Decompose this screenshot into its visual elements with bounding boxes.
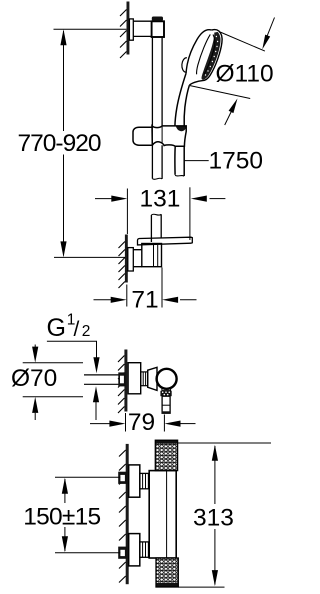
wall (bracket view) (119, 235, 128, 289)
dimension line segments (64, 479, 66, 551)
head apex cap (212, 30, 219, 31)
left arrow (90, 423, 110, 425)
svg-text:71: 71 (131, 287, 158, 314)
wall bracket flange (top) (129, 19, 133, 40)
bottom extension line (179, 586, 225, 588)
left arrow (outside, pointing right) (95, 198, 112, 200)
left extension line (126, 189, 128, 235)
valve body cone (148, 367, 157, 390)
supply pipe behind wall (84, 375, 124, 384)
bracket flange (128, 248, 134, 271)
bottom supply nut behind wall (118, 547, 127, 559)
svg-text:G: G (47, 314, 66, 342)
top knob (knurled) (155, 440, 177, 470)
rail edges through holder (152, 126, 162, 145)
valve neck / union (141, 372, 148, 386)
wall bracket arm (top) (133, 21, 151, 36)
extension line top (54, 28, 127, 30)
upper arrow (267, 18, 275, 37)
hand shower head (182, 30, 222, 86)
upper tangent extension line (219, 32, 265, 52)
bottom coupling (140, 542, 149, 557)
wall (valve view) (118, 350, 127, 414)
thermostat body (149, 471, 176, 558)
outlet cylinder (162, 396, 170, 413)
arrow down (62, 536, 68, 552)
G1/2 arrow down to pipe (93, 357, 99, 373)
bottom extension line (55, 552, 120, 554)
arrow down (above top line) (34, 345, 36, 348)
left arrow (94, 299, 112, 301)
extension line top (23, 362, 83, 364)
arrow up (60, 29, 66, 45)
arrow up (212, 445, 218, 461)
wall (top drawing) (120, 2, 129, 59)
lower tangent extension line (190, 86, 251, 99)
hose break cut (175, 175, 184, 176)
right extension line (161, 268, 163, 308)
top supply nut behind wall (118, 472, 127, 484)
arrow down (212, 570, 218, 586)
handle cone (dark) in holder (176, 126, 186, 131)
top coupling (140, 473, 149, 488)
rail tube (below holder) (152, 145, 162, 179)
rail tube (lower segment, above bottom bracket) (151, 214, 161, 242)
svg-text:1750: 1750 (209, 148, 264, 175)
svg-text:313: 313 (193, 505, 234, 532)
left extension line (126, 285, 128, 307)
hand shower handle (175, 73, 190, 126)
bottom escutcheon (129, 534, 140, 566)
bracket body (142, 244, 162, 267)
svg-text:79: 79 (128, 409, 155, 436)
rail top cap (152, 17, 163, 21)
arrow up (62, 478, 68, 494)
rail head block (152, 21, 164, 37)
rail tube (upper segment) (152, 38, 162, 126)
lower arrow (225, 111, 232, 126)
right extension line (189, 187, 191, 240)
shower hose (upper) (175, 146, 184, 176)
svg-text:131: 131 (139, 186, 180, 213)
dimension line segments (214, 446, 216, 585)
arrow down (60, 241, 66, 257)
right arrow (outside, pointing left) (210, 198, 226, 200)
outlet knurled nut (160, 391, 171, 396)
dimension line (gap for text) (63, 31, 65, 256)
svg-text:770-920: 770-920 (18, 130, 102, 157)
G1/2 leader line (47, 341, 97, 358)
bottom knob (knurled) (156, 558, 178, 587)
rail break cut (bottom of upper piece) (152, 178, 162, 179)
left extension line (125, 413, 127, 432)
pause button on handle back (182, 58, 187, 72)
valve escutcheon (128, 363, 141, 394)
svg-text:Ø110: Ø110 (216, 61, 274, 88)
svg-text:Ø70: Ø70 (11, 365, 57, 392)
slider holder body (152, 126, 186, 146)
arrow up (below bottom line) (34, 413, 36, 420)
release lever (138, 237, 193, 245)
svg-text:150±15: 150±15 (23, 504, 101, 531)
svg-text:/: / (74, 318, 80, 341)
top escutcheon (129, 465, 140, 497)
right extension line (163, 415, 165, 432)
bracket arm (133, 250, 142, 267)
head back (left) outline (186, 30, 212, 73)
right arrow (180, 423, 196, 425)
rail break cut (top of lower piece) (151, 214, 161, 215)
head side contour line (197, 34, 211, 74)
pipe union nut behind wall (118, 372, 125, 386)
valve knob (circle) (157, 369, 177, 389)
face plate inner rim line (204, 35, 215, 75)
slider holder knob (133, 127, 152, 145)
head right outline down to handle (189, 31, 222, 85)
top extension line (55, 476, 120, 478)
extension line bottom (54, 256, 126, 258)
svg-text:2: 2 (82, 323, 91, 340)
wall (bottom drawing) (119, 444, 129, 584)
top extension line (178, 442, 271, 444)
outlet collar (162, 389, 171, 391)
spray face crescent (dark, nozzle band) (202, 32, 221, 80)
right arrow (180, 299, 197, 301)
G1/2 arrow up from below (95, 402, 97, 421)
extension line bottom (23, 396, 83, 398)
nozzle dots on crescent (205, 36, 219, 76)
